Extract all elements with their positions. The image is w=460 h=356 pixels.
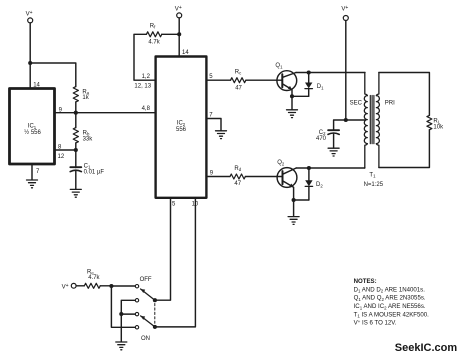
svg-text:T1: T1 <box>369 172 376 178</box>
capacitor C1 (0.01 uF) <box>70 166 81 168</box>
wire node to C1 <box>75 150 77 168</box>
svg-text:12: 12 <box>58 154 65 160</box>
svg-text:NOTES:: NOTES: <box>354 278 377 285</box>
resistor Rb (33k) <box>73 128 78 143</box>
wire Rf left to IC2 pins 1,2,12,13 <box>134 34 156 80</box>
resistor Rf (4.7k) <box>146 32 161 37</box>
notes block <box>354 278 430 327</box>
switch arm 2 (to ON) <box>141 316 155 327</box>
transformer core <box>370 96 374 144</box>
wire IC1 pin 9 to IC2 pins 4,8 <box>55 112 156 114</box>
svg-text:1k: 1k <box>82 95 89 101</box>
svg-text:Q2: Q2 <box>277 160 285 166</box>
dashed mechanical link <box>154 304 156 325</box>
node Q2 collector / D2 <box>307 166 311 170</box>
wire Q2 collector rail to transformer <box>296 167 364 169</box>
svg-text:9: 9 <box>210 171 214 177</box>
wire C2 to ground <box>333 134 335 148</box>
svg-text:OFF: OFF <box>140 277 152 283</box>
wire D2 to Q2 emitter node <box>294 199 309 201</box>
resistor RL (10k) <box>427 115 432 129</box>
resistor Re (4.7k) <box>84 283 100 288</box>
wire ground rail down <box>120 314 122 342</box>
node center tap / C2 <box>344 118 348 122</box>
wire IC2 pin 9 to Rd <box>206 176 230 178</box>
wire IC2 bottom pin 5 down to switch pole 1 <box>155 198 171 300</box>
terminal V+ (bottom left) <box>71 283 76 288</box>
svg-text:PRI: PRI <box>385 100 395 106</box>
svg-text:Rc: Rc <box>235 69 242 75</box>
wire C1 to ground <box>75 171 77 189</box>
svg-text:47: 47 <box>235 85 242 91</box>
ground (IC1 pin 7) <box>27 180 38 188</box>
node pin9/Ra/Rb junction <box>74 111 78 115</box>
svg-text:4,8: 4,8 <box>142 106 151 112</box>
svg-text:7: 7 <box>209 113 213 119</box>
wire contact2 to ground rail <box>121 300 135 314</box>
switch pole 1 <box>153 298 157 302</box>
node Q1 emitter <box>290 94 294 98</box>
wire Rc to Q1 base <box>246 79 277 81</box>
svg-text:4.7k: 4.7k <box>148 39 160 45</box>
node Rf junction <box>177 32 181 36</box>
transformer T1 primary winding (output side) <box>376 73 379 96</box>
svg-text:5: 5 <box>172 202 176 208</box>
svg-text:4.7k: 4.7k <box>88 275 100 281</box>
resistor Ra (1k) <box>73 87 78 102</box>
ground (Q1 emitter) <box>287 110 298 118</box>
wire SEC bottom to Q2 rail <box>364 167 366 170</box>
wire Rd to Q2 base <box>245 176 277 178</box>
svg-text:IC2: IC2 <box>177 121 186 127</box>
resistor Rc (47) <box>231 78 246 83</box>
wire node to C2 <box>334 120 346 130</box>
terminal V+ (transformer center tap) <box>343 16 348 21</box>
switch contact 4 <box>135 326 138 329</box>
svg-text:IC1: IC1 <box>28 124 37 130</box>
node Q1 collector / D1 <box>307 70 311 74</box>
IC1 1/2 556 timer box <box>10 89 55 165</box>
ground (switch) <box>116 342 127 350</box>
svg-text:47: 47 <box>234 181 241 187</box>
wire D1 to Q1 emitter node <box>292 95 309 97</box>
svg-text:Rd: Rd <box>234 166 241 172</box>
svg-text:D1 AND D2 ARE 1N4001s.: D1 AND D2 ARE 1N4001s. <box>354 286 426 293</box>
wire contact3 to ground rail <box>121 313 135 315</box>
wire IC1 pins 8,12 <box>55 149 76 151</box>
wire RL bottom to PRI bottom <box>379 130 430 168</box>
svg-text:470: 470 <box>316 136 327 142</box>
svg-text:Rf: Rf <box>150 23 156 29</box>
terminal V+ (top left) <box>28 18 33 23</box>
svg-text:0.01 µF: 0.01 µF <box>84 169 105 175</box>
wire Ra to pin9 node <box>75 102 77 113</box>
node junction on V+ line <box>28 61 32 65</box>
ground (Q2 emitter) <box>288 217 299 225</box>
node switch feed <box>109 284 113 288</box>
node pins 8,12 / C1 junction <box>74 148 78 152</box>
svg-text:7: 7 <box>36 169 40 175</box>
capacitor C2 (470) <box>328 129 339 131</box>
node ground rail <box>119 312 123 316</box>
svg-text:D2: D2 <box>316 182 323 188</box>
svg-text:V+: V+ <box>175 5 182 13</box>
svg-text:Q1: Q1 <box>275 63 283 69</box>
svg-text:T1 IS A MOUSER 42KF500.: T1 IS A MOUSER 42KF500. <box>354 311 430 318</box>
ground (IC2 pin 7) <box>216 131 227 139</box>
svg-text:556: 556 <box>176 127 187 133</box>
wire center tap to SEC winding <box>346 119 365 121</box>
wire node to OFF contact <box>111 285 135 287</box>
wire node down to lower contact <box>111 286 135 327</box>
wire IC2 bottom pin 10 down to switch pole 2 <box>155 198 196 327</box>
wire IC2 pin 7 to ground <box>206 119 221 131</box>
switch arm 1 (to OFF) <box>141 289 155 300</box>
svg-text:33k: 33k <box>83 136 94 142</box>
svg-text:14: 14 <box>33 83 40 89</box>
svg-text:V+ IS 6 TO 12V.: V+ IS 6 TO 12V. <box>354 319 397 327</box>
wire V+ to IC1 pin 14 <box>29 23 31 89</box>
wire V+ to Re <box>76 285 84 287</box>
diode D2 (1N4001) <box>308 168 310 180</box>
wire node to Rb <box>75 113 77 128</box>
svg-text:IC1 AND IC2 ARE NE556s.: IC1 AND IC2 ARE NE556s. <box>354 303 426 310</box>
diode D1 (1N4001) <box>308 73 310 83</box>
wire V+ down to center tap node <box>345 21 347 120</box>
svg-text:12, 13: 12, 13 <box>134 84 151 90</box>
terminal V+ (above IC2) <box>177 13 182 18</box>
switch contact OFF <box>135 285 138 288</box>
wire IC2 pin 5 to Rc <box>206 79 230 81</box>
wire Re to switch node <box>100 285 111 287</box>
wire IC1 pin 7 to ground <box>31 164 33 180</box>
svg-text:10k: 10k <box>433 125 444 131</box>
svg-text:V+: V+ <box>341 5 348 13</box>
svg-text:SeekIC.com: SeekIC.com <box>395 342 458 354</box>
svg-text:½ 556: ½ 556 <box>24 129 41 136</box>
svg-text:SEC: SEC <box>350 100 363 106</box>
switch contact 3 (ON, grounded) <box>135 312 138 315</box>
svg-text:1,2: 1,2 <box>142 74 151 80</box>
svg-text:V+: V+ <box>62 283 69 291</box>
transformer T1 secondary winding (driven side) <box>365 73 368 96</box>
svg-text:10: 10 <box>192 202 199 208</box>
svg-text:5: 5 <box>209 74 213 80</box>
wire Rf right to node <box>162 33 179 35</box>
ground (C1) <box>70 189 81 197</box>
wire V+ to IC2 pin 14 <box>178 18 180 57</box>
svg-text:ON: ON <box>141 336 150 342</box>
switch pole 2 <box>153 325 157 329</box>
node Q2 emitter <box>292 198 296 202</box>
wire PRI top to RL <box>379 73 430 116</box>
wire Q1 emitter to ground <box>291 96 293 109</box>
wire Q1 collector rail <box>296 72 365 74</box>
wire Q2 emitter to ground <box>293 200 295 216</box>
transistor Q1 (2N3055) <box>277 71 297 91</box>
svg-text:N=1:25: N=1:25 <box>364 182 384 188</box>
wire junction to Ra <box>30 63 76 87</box>
svg-text:D1: D1 <box>317 84 324 90</box>
ground (C2) <box>328 148 339 156</box>
svg-text:Q1 AND Q2 ARE 2N3055s.: Q1 AND Q2 ARE 2N3055s. <box>354 295 426 302</box>
svg-text:14: 14 <box>182 50 189 56</box>
switch contact 2 (grounded) <box>135 299 138 302</box>
resistor Rd (47) <box>230 174 245 179</box>
transistor Q2 (2N3055) <box>277 168 297 188</box>
IC2 556 timer box <box>156 57 207 198</box>
wire Rb to pin 8,12 node <box>75 143 77 150</box>
svg-text:C2: C2 <box>319 130 326 136</box>
svg-text:V+: V+ <box>26 10 33 18</box>
